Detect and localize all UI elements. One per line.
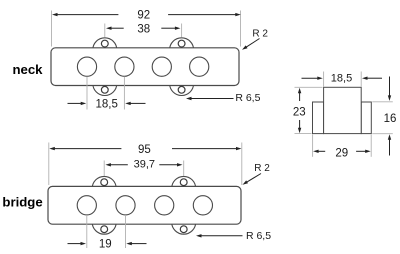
bridge extension tick left (39,7) [103, 161, 105, 177]
side extension tick left (18,5) [323, 72, 325, 87]
bridge dimension arrow right (19) [126, 242, 146, 245]
side dimension arrow right (18,5) [362, 77, 382, 80]
svg-text:R 6,5: R 6,5 [246, 230, 271, 242]
neck dimension line 92 [52, 13, 241, 16]
svg-text:R 6,5: R 6,5 [235, 92, 260, 104]
bridge extension line right (95) [241, 143, 243, 186]
neck dimension arrow right (18,5) [125, 102, 145, 105]
svg-text:38: 38 [137, 23, 150, 35]
svg-text:19: 19 [99, 238, 112, 250]
bridge mounting ear top-right [172, 176, 196, 200]
bridge dimension arrow left (19) [68, 242, 87, 245]
neck extension tick left (38) [104, 24, 106, 38]
svg-text:23: 23 [293, 107, 306, 119]
side extension line top (23) [295, 86, 323, 88]
svg-text:16: 16 [384, 113, 397, 125]
svg-text:bridge: bridge [2, 195, 42, 210]
svg-text:R 2: R 2 [254, 163, 270, 174]
neck extension tick right (38) [181, 24, 183, 38]
svg-text:39,7: 39,7 [134, 159, 155, 171]
neck pole piece 3 [152, 57, 171, 76]
bridge extension line left (95) [48, 143, 50, 186]
side view cover body [324, 87, 362, 133]
neck ear screw hole bottom-right [178, 86, 185, 93]
side extension tick right (18,5) [360, 72, 362, 87]
bridge pole piece 3 [155, 196, 174, 215]
side dimension arrow left (18,5) [302, 77, 323, 80]
svg-text:18,5: 18,5 [96, 99, 118, 111]
bridge pole piece 2 [116, 196, 135, 215]
svg-text:neck: neck [12, 62, 43, 77]
neck pole piece 1 [77, 57, 96, 76]
neck ear screw hole bottom-left [101, 86, 108, 93]
svg-text:29: 29 [335, 148, 348, 160]
neck extension line left (92) [51, 11, 53, 47]
side dimension arrow up (23) [298, 88, 301, 101]
svg-text:95: 95 [138, 144, 151, 156]
bridge leader arrow R 6,5 [196, 234, 243, 237]
neck extension line right (92) [240, 11, 242, 47]
side extension line bottom (23) [295, 133, 312, 135]
neck extension line pole2 (18,5) [123, 77, 125, 110]
side dimension arrow up (16) [388, 134, 391, 155]
side dimension arrow down (16) [388, 77, 391, 101]
side extension line left (29) [312, 135, 314, 157]
neck pole piece 2 [115, 57, 134, 76]
bridge mounting ear bottom-left [92, 210, 116, 234]
neck ear screw hole top-left [101, 40, 108, 47]
neck dimension line 38 [106, 27, 180, 30]
side view right flange [361, 102, 371, 134]
neck mounting ear bottom-right [170, 72, 194, 96]
neck dimension arrow left (18,5) [68, 102, 87, 105]
bridge pole piece 4 [193, 196, 212, 215]
side extension line bottom (16) [372, 133, 393, 135]
bridge extension line pole2 (19) [125, 215, 127, 248]
side dimension line 29 [313, 150, 371, 153]
neck extension line pole1 (18,5) [86, 77, 88, 110]
bridge pole piece 1 [77, 196, 96, 215]
bridge ear screw hole bottom-left [101, 226, 108, 233]
side dimension arrow down (23) [298, 120, 301, 133]
side extension line right (29) [370, 135, 372, 157]
neck pole piece 4 [190, 57, 209, 76]
bridge leader arrow R 2 [243, 174, 262, 185]
bridge pickup body [48, 186, 241, 224]
bridge mounting ear bottom-right [172, 210, 196, 234]
neck leader arrow R 6,5 [186, 97, 234, 100]
bridge dimension line 95 [49, 147, 241, 150]
bridge extension tick right (39,7) [183, 161, 185, 177]
svg-text:18,5: 18,5 [331, 73, 352, 85]
svg-text:R 2: R 2 [252, 28, 268, 39]
side extension line top (16) [372, 101, 393, 103]
bridge ear screw hole bottom-right [180, 226, 187, 233]
neck mounting ear top-right [170, 38, 194, 62]
neck pickup body [51, 48, 239, 86]
side view left flange [313, 102, 324, 134]
neck mounting ear top-left [93, 38, 117, 62]
bridge ear screw hole top-right [180, 179, 187, 186]
neck mounting ear bottom-left [93, 72, 117, 96]
bridge mounting ear top-left [92, 176, 116, 200]
neck leader arrow R 2 [242, 39, 260, 50]
neck ear screw hole top-right [178, 40, 185, 47]
svg-text:92: 92 [137, 9, 150, 21]
bridge ear screw hole top-left [101, 179, 108, 186]
bridge dimension line 39,7 [105, 163, 182, 166]
bridge extension line pole1 (19) [86, 215, 88, 248]
